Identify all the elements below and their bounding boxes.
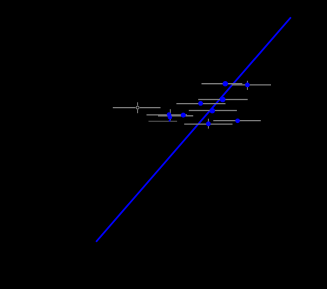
data point F — [206, 121, 211, 126]
gray open-circle marker X — [136, 106, 139, 109]
x error bar of point G — [213, 120, 260, 122]
y error bar of point B — [246, 81, 248, 90]
x error bar of point P2 — [158, 115, 193, 117]
y error bar of gray point X (bottom segment) — [137, 110, 139, 114]
data point P2 — [181, 113, 186, 118]
data point D — [210, 108, 215, 113]
x error bar of gray point X (right segment) — [140, 107, 161, 109]
data point A — [223, 81, 228, 86]
data point C — [198, 101, 203, 106]
x error bar of point B — [232, 84, 271, 86]
data point G — [235, 119, 240, 124]
x error bar of point A — [202, 83, 243, 85]
data point E — [220, 97, 226, 103]
data point P1 (lower lobe) — [168, 115, 172, 119]
x error bar of point E — [198, 99, 248, 101]
x error bar of gray point X (left segment) — [113, 107, 136, 109]
x error bar of point P1 — [147, 114, 188, 116]
x error bar of point F — [184, 123, 232, 125]
faint x error bar of hidden point H — [149, 120, 178, 122]
x error bar of point C — [176, 103, 225, 105]
y error bar of point F — [207, 119, 209, 129]
one-to-one model line (blue diagonal) — [96, 17, 291, 242]
data point P1 (upper lobe) — [167, 112, 171, 116]
x error bar of point D — [189, 110, 237, 112]
data point B — [245, 83, 250, 88]
data point hidden H — [169, 120, 171, 122]
y error bar of gray point X (top segment) — [137, 102, 139, 105]
y error bar of point P1 — [169, 109, 171, 120]
